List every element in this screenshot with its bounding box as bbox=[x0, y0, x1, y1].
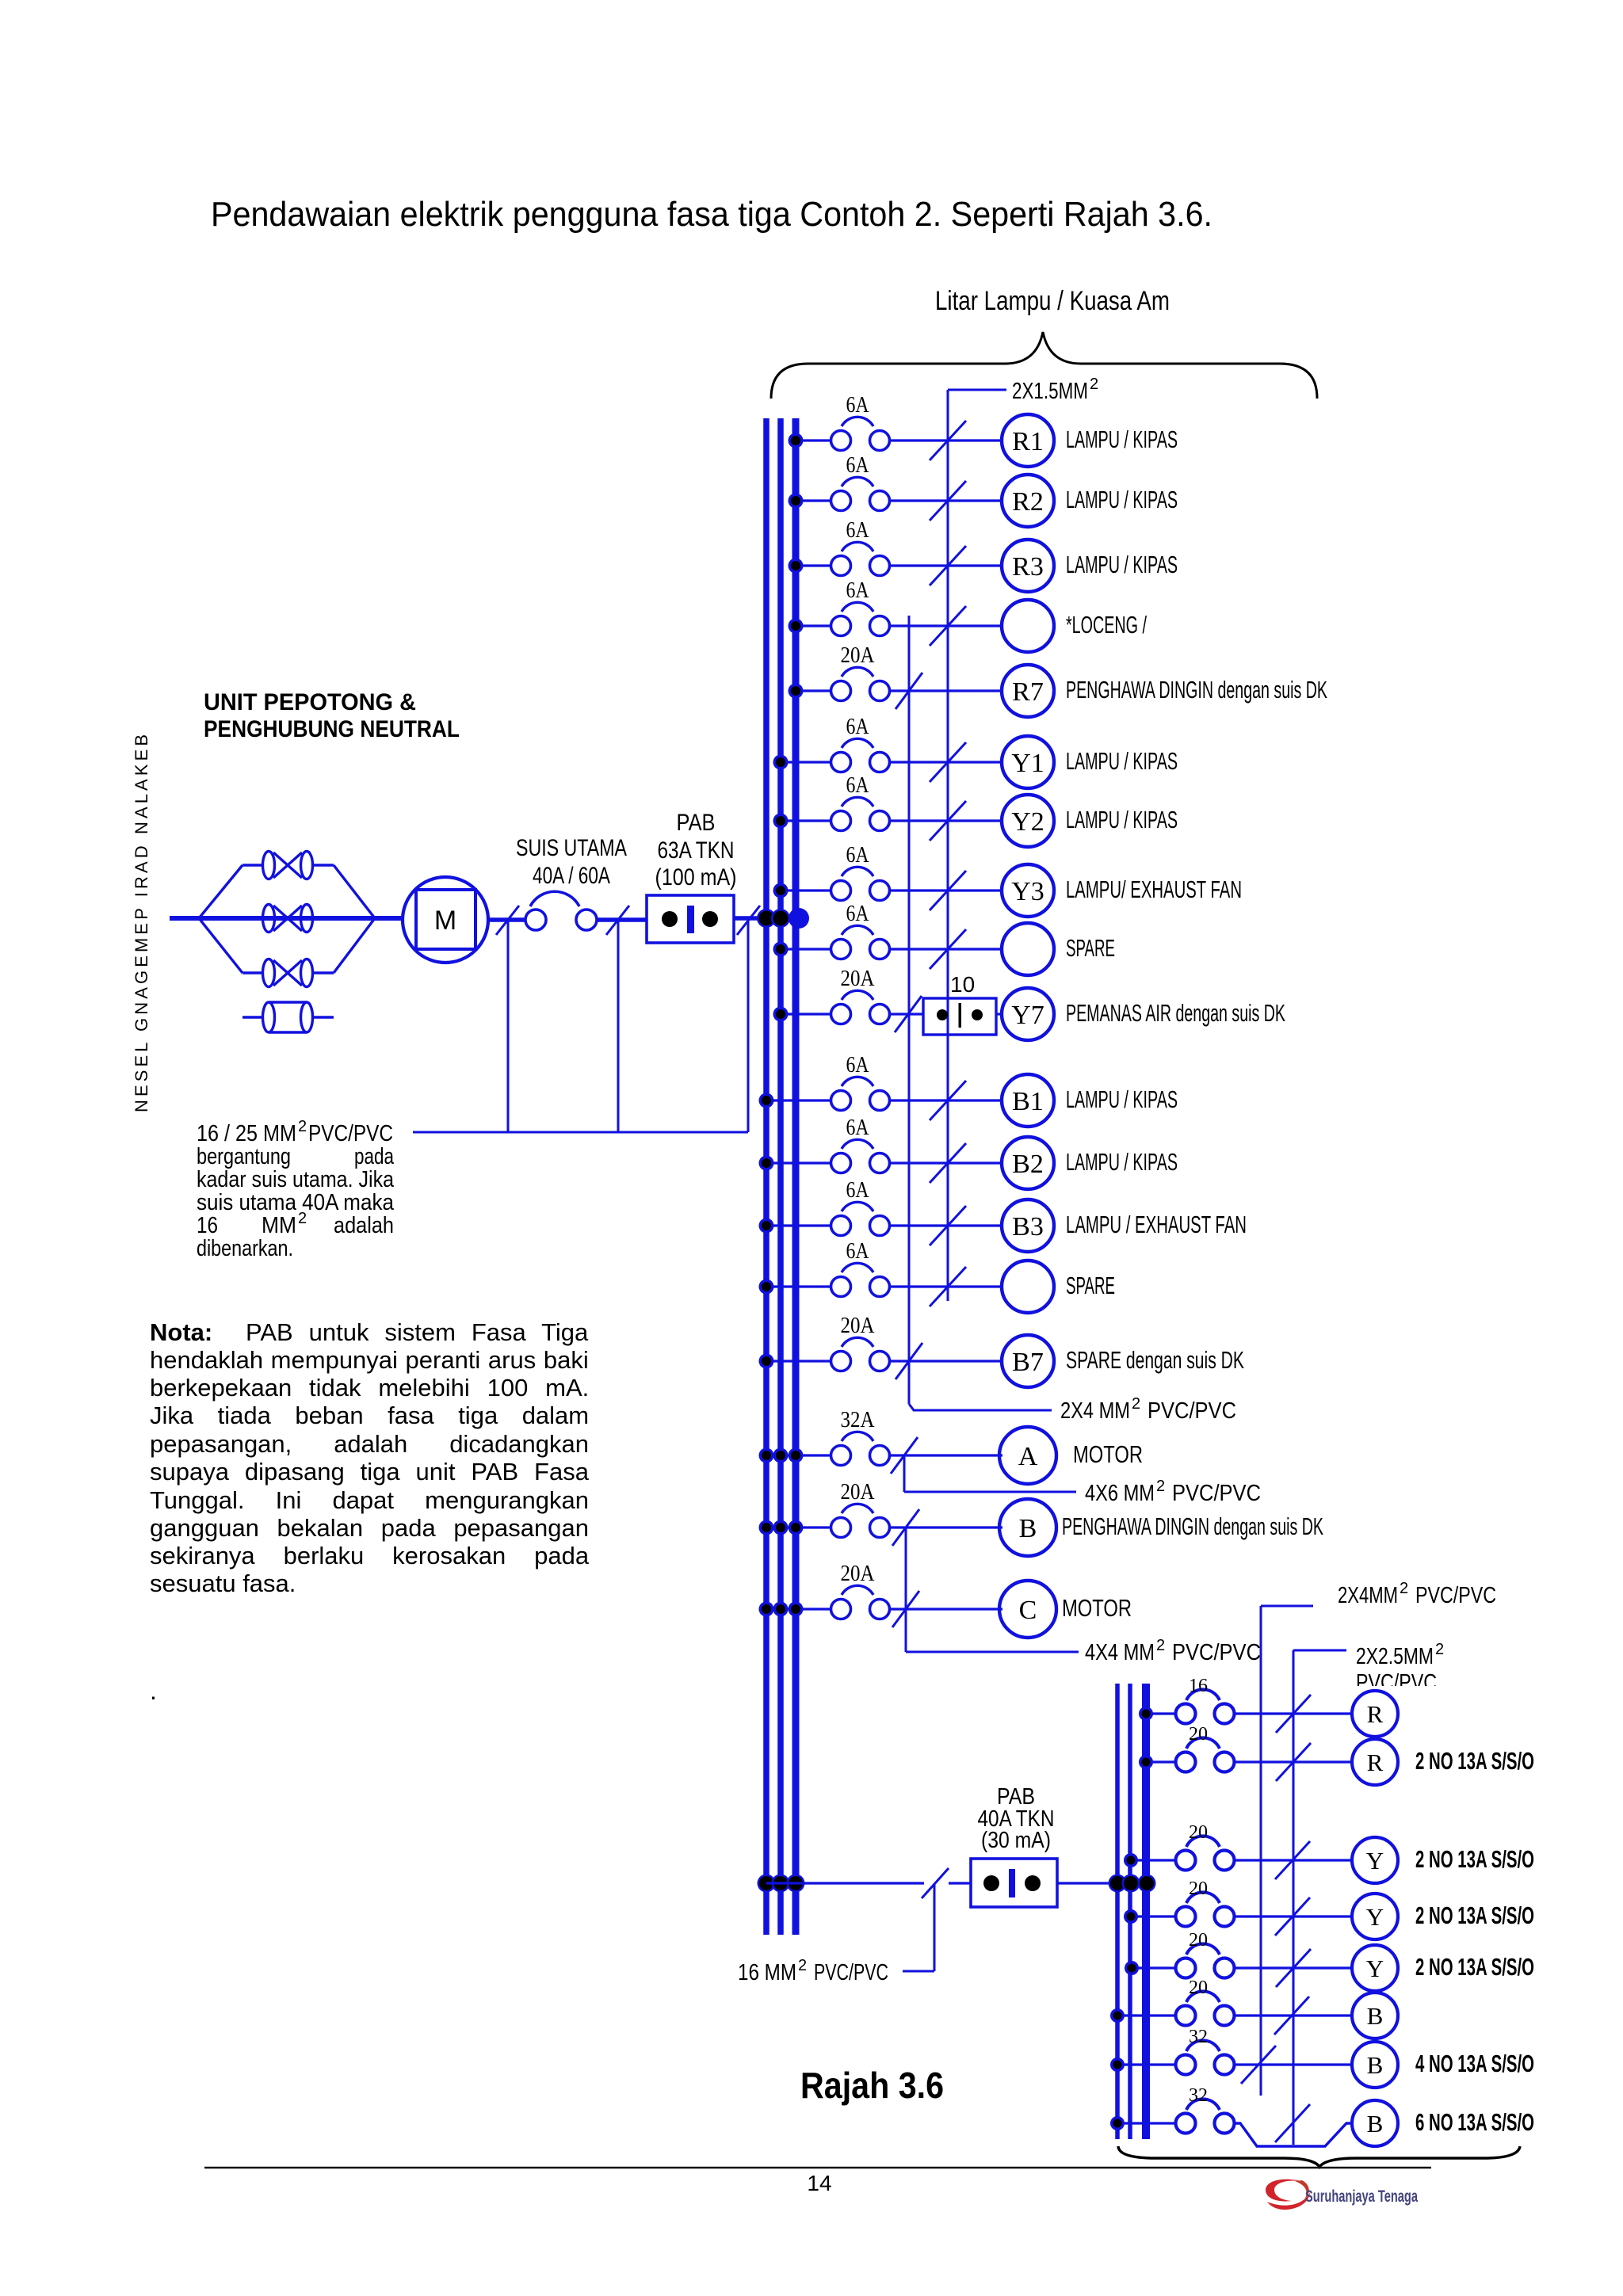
outlet circle Y3 bbox=[1002, 864, 1054, 917]
tail line PAB-side down to cable note bbox=[747, 918, 750, 1132]
PAB 40A terminal dot right bbox=[1025, 1875, 1041, 1891]
svg-text:32A: 32A bbox=[841, 1408, 876, 1432]
fuse 6A arc bbox=[842, 797, 873, 807]
conductor slash bbox=[930, 546, 966, 585]
wire tap to fuse bbox=[796, 624, 831, 627]
svg-text:MOTOR: MOTOR bbox=[1073, 1440, 1143, 1468]
outlet circle R7 bbox=[1002, 665, 1054, 717]
svg-text:LAMPU / KIPAS: LAMPU / KIPAS bbox=[1066, 806, 1178, 833]
socket-circuit fuse arc bbox=[1186, 1943, 1220, 1955]
svg-text:2 NO 13A S/S/O: 2 NO 13A S/S/O bbox=[1415, 1901, 1534, 1929]
svg-text:Y: Y bbox=[1366, 1903, 1384, 1931]
conductor slash bbox=[896, 1343, 922, 1379]
socket busbar phase Y bbox=[1128, 1684, 1132, 2139]
wire with dip to outlet bbox=[1234, 2123, 1352, 2146]
wire fuse to outlet bbox=[1234, 2014, 1352, 2016]
wire fuse to outlet bbox=[890, 564, 1002, 566]
outlet circle B1 bbox=[1002, 1074, 1054, 1127]
socket outlet circle B bbox=[1352, 1993, 1398, 2039]
fuse 20A terminal circles bbox=[831, 1518, 851, 1538]
main switch SUIS UTAMA contacts bbox=[525, 910, 546, 930]
logo Suruhanjaya Tenaga swoosh bbox=[1266, 2180, 1304, 2202]
wire tap to fuse bbox=[766, 1360, 831, 1362]
socket-circuit fuse 20A terminal circles bbox=[1176, 1958, 1196, 1978]
svg-text:20A: 20A bbox=[841, 643, 876, 668]
svg-text:6A: 6A bbox=[846, 1239, 870, 1264]
svg-text:6A: 6A bbox=[846, 578, 870, 603]
svg-text:B: B bbox=[1367, 2051, 1384, 2079]
svg-text:2X1.5MM: 2X1.5MM bbox=[1012, 379, 1088, 404]
wire fuse to outlet bbox=[890, 948, 1002, 950]
socket busbar phase R bbox=[1142, 1684, 1150, 2139]
conductor slash bbox=[891, 1437, 918, 1474]
svg-text:supaya dipasang tiga unit PAB: supaya dipasang tiga unit PAB Fasa bbox=[150, 1458, 590, 1486]
svg-text:2X4 MM: 2X4 MM bbox=[1060, 1398, 1130, 1424]
wire cutout to meter bbox=[375, 916, 403, 921]
socket-circuit fuse arc bbox=[1186, 1836, 1220, 1847]
wire fuse to outlet bbox=[890, 1285, 1002, 1287]
fuse 20A terminal circles bbox=[831, 681, 851, 701]
socket-circuit fuse 32A terminal circles bbox=[1176, 2114, 1196, 2134]
tap node bbox=[773, 942, 789, 957]
wire tap to fuse bbox=[796, 439, 831, 441]
wire tap to fuse bbox=[781, 761, 831, 763]
tap node bbox=[759, 1354, 774, 1369]
svg-text:40A / 60A: 40A / 60A bbox=[533, 863, 610, 889]
socket outlet circle Y bbox=[1352, 1894, 1398, 1939]
wire tap to fuse bbox=[1131, 1915, 1177, 1917]
socket-circuit fuse arc bbox=[1186, 1991, 1220, 2002]
cutout fork right bbox=[312, 864, 334, 866]
svg-text:R3: R3 bbox=[1012, 552, 1044, 582]
svg-text:2: 2 bbox=[1156, 1478, 1165, 1495]
svg-text:B: B bbox=[1367, 2002, 1384, 2030]
wire fuse to outlet bbox=[890, 439, 1002, 441]
wire tap to fuse bbox=[766, 1099, 831, 1101]
cutout fork left bbox=[199, 865, 242, 918]
svg-text:PVC/PVC: PVC/PVC bbox=[308, 1121, 393, 1146]
conductor slash bbox=[930, 606, 966, 646]
svg-text:20A: 20A bbox=[841, 1480, 876, 1505]
svg-text:Tunggal. Ini dapat mengurangka: Tunggal. Ini dapat mengurangkan bbox=[150, 1486, 589, 1514]
conductor slash bbox=[930, 1143, 966, 1183]
wire box to outlet bbox=[996, 1013, 1002, 1015]
svg-text:6A: 6A bbox=[846, 1116, 870, 1140]
wire tap to fuse bbox=[781, 948, 831, 950]
conductor slash bbox=[1276, 1695, 1311, 1733]
tap node bbox=[1139, 1755, 1153, 1769]
wire tap to fuse bbox=[759, 1526, 831, 1528]
svg-text:UNIT PEPOTONG &: UNIT PEPOTONG & bbox=[204, 689, 416, 715]
wire tap to fuse bbox=[1117, 2063, 1177, 2065]
conductor slash on 2X4MM2 line bbox=[895, 996, 922, 1032]
outlet circle A bbox=[999, 1427, 1056, 1484]
wire fuse to outlet bbox=[890, 819, 1002, 822]
wire fuse to outlet bbox=[890, 689, 1002, 692]
clipped edge of pasted label bbox=[1347, 1686, 1450, 1702]
svg-text:LAMPU / EXHAUST FAN: LAMPU / EXHAUST FAN bbox=[1066, 1211, 1247, 1238]
socket feed node Y bbox=[1122, 1875, 1140, 1893]
outlet circle B7 bbox=[1002, 1335, 1054, 1387]
svg-text:2: 2 bbox=[1132, 1395, 1140, 1413]
busbar junction node B bbox=[757, 909, 776, 928]
fuse 6A terminal circles bbox=[831, 431, 851, 451]
conductor slash bbox=[1275, 1841, 1310, 1879]
wire meter to main switch bbox=[488, 917, 526, 922]
svg-text:*LOCENG /: *LOCENG / bbox=[1066, 611, 1147, 639]
svg-text:2: 2 bbox=[298, 1210, 307, 1227]
svg-text:pepasangan, adalah dicadangkan: pepasangan, adalah dicadangkan bbox=[150, 1430, 589, 1458]
outlet circle C bbox=[999, 1581, 1056, 1638]
tap node bbox=[1124, 1853, 1138, 1867]
svg-text:Y2: Y2 bbox=[1011, 807, 1044, 837]
fuse 20A arc bbox=[842, 1585, 873, 1595]
svg-text:2X4MM: 2X4MM bbox=[1338, 1583, 1398, 1608]
tail line meter-side down to cable note bbox=[507, 920, 510, 1132]
svg-text:20A: 20A bbox=[841, 967, 876, 991]
fuse 6A terminal circles bbox=[831, 1091, 851, 1111]
svg-text:M: M bbox=[434, 906, 456, 936]
svg-text:4 NO 13A S/S/O: 4 NO 13A S/S/O bbox=[1415, 2050, 1534, 2077]
svg-text:6 NO 13A S/S/O: 6 NO 13A S/S/O bbox=[1415, 2108, 1534, 2136]
svg-text:Y: Y bbox=[1366, 1955, 1384, 1982]
svg-text:20A: 20A bbox=[841, 1314, 876, 1338]
cutout fuse phase Y (middle bowtie) bbox=[263, 905, 275, 933]
svg-text:PVC/PVC: PVC/PVC bbox=[1172, 1481, 1261, 1506]
fuse 6A arc bbox=[842, 417, 873, 426]
wire tap to fuse bbox=[781, 1013, 831, 1015]
svg-text:PENGHUBUNG NEUTRAL: PENGHUBUNG NEUTRAL bbox=[204, 716, 460, 742]
outlet circle Y7 bbox=[1002, 988, 1054, 1040]
svg-text:SPARE: SPARE bbox=[1066, 934, 1115, 962]
fuse 6A arc bbox=[842, 477, 873, 486]
conductor slash bbox=[1276, 1949, 1311, 1987]
tap node bbox=[773, 1007, 789, 1022]
svg-text:(100 mA): (100 mA) bbox=[655, 864, 737, 891]
svg-text:6A: 6A bbox=[846, 715, 870, 739]
svg-text:SPARE dengan suis DK: SPARE dengan suis DK bbox=[1066, 1346, 1244, 1374]
socket-circuit fuse arc bbox=[1186, 1892, 1220, 1903]
PAB 40A terminal dot left bbox=[983, 1875, 999, 1891]
svg-text:R7: R7 bbox=[1012, 677, 1044, 707]
fuse 20A terminal circles bbox=[831, 1352, 851, 1371]
wire fuse to outlet bbox=[1234, 1760, 1352, 1763]
fuse 6A terminal circles bbox=[831, 1277, 851, 1297]
svg-text:Nota:: Nota: bbox=[150, 1318, 212, 1346]
fuse 6A arc bbox=[842, 1077, 873, 1086]
svg-text:2 NO 13A S/S/O: 2 NO 13A S/S/O bbox=[1415, 1953, 1534, 1981]
tap nodes three-phase bbox=[759, 1448, 774, 1463]
feed junction node Y bbox=[772, 1875, 790, 1893]
svg-text:MM: MM bbox=[262, 1213, 296, 1238]
svg-text:63A TKN: 63A TKN bbox=[658, 837, 735, 864]
svg-text:Y7: Y7 bbox=[1011, 1001, 1044, 1030]
svg-text:B7: B7 bbox=[1012, 1348, 1044, 1377]
socket-circuit fuse 16A terminal circles bbox=[1176, 1704, 1196, 1724]
tap node bbox=[789, 433, 804, 448]
wire fuse to outlet bbox=[1234, 1915, 1352, 1917]
wire PAB 40A to socket busbar bbox=[1057, 1882, 1147, 1884]
cable 2X1.5MM2 stub bbox=[948, 389, 1006, 391]
svg-text:2: 2 bbox=[1435, 1641, 1444, 1658]
fuse 6A arc bbox=[842, 738, 873, 748]
tap node bbox=[1125, 1961, 1139, 1975]
svg-text:10: 10 bbox=[950, 972, 975, 997]
svg-text:suis utama 40A maka: suis utama 40A maka bbox=[197, 1190, 395, 1215]
conductor slash bbox=[930, 1267, 966, 1306]
tap node bbox=[789, 559, 804, 574]
busbar junction node R bbox=[789, 908, 809, 929]
outlet circle B bbox=[999, 1499, 1056, 1556]
svg-text:6A: 6A bbox=[846, 1178, 870, 1203]
wire fuse to outlet bbox=[1234, 1712, 1352, 1714]
svg-text:B: B bbox=[1019, 1514, 1037, 1543]
svg-text:(30 mA): (30 mA) bbox=[981, 1828, 1051, 1853]
neutral link bbox=[242, 1016, 263, 1018]
svg-text:6A: 6A bbox=[846, 773, 870, 798]
fuse 6A arc bbox=[842, 1139, 873, 1149]
conductor slash bbox=[1276, 1743, 1311, 1781]
svg-text:sekiranya berlaku kerosakan pa: sekiranya berlaku kerosakan pada bbox=[150, 1542, 590, 1569]
socket-circuit fuse 20A terminal circles bbox=[1176, 1851, 1196, 1871]
socket feed node R bbox=[1138, 1875, 1156, 1893]
fuse 6A arc bbox=[842, 1263, 873, 1272]
conductor slash bbox=[896, 673, 922, 709]
wire tap to fuse bbox=[1146, 1712, 1177, 1714]
tap nodes three-phase bbox=[759, 1520, 774, 1535]
fuse 6A arc bbox=[842, 602, 873, 612]
tap node bbox=[773, 883, 789, 898]
wire fuse to outlet bbox=[890, 1454, 1002, 1456]
svg-text:NESEL GNAGEMEP IRAD NALAKEB: NESEL GNAGEMEP IRAD NALAKEB bbox=[132, 731, 151, 1112]
conductor slash bbox=[930, 1206, 966, 1245]
svg-text:20: 20 bbox=[1189, 1878, 1208, 1899]
wire tap to fuse bbox=[766, 1224, 831, 1226]
tap nodes three-phase bbox=[759, 1602, 774, 1617]
outlet circle R3 bbox=[1002, 540, 1054, 592]
socket-circuit fuse arc bbox=[1186, 2040, 1220, 2051]
conductor slash 16MM feed bbox=[922, 1868, 949, 1898]
socket feed node B bbox=[1109, 1875, 1127, 1893]
fuse 20A terminal circles bbox=[831, 1005, 851, 1024]
cutout fuse phase R (top bowtie) bbox=[263, 852, 275, 879]
fuse 6A terminal circles bbox=[831, 811, 851, 831]
tap node bbox=[789, 684, 804, 699]
outlet circle SPARE bbox=[1002, 1261, 1054, 1313]
svg-text:LAMPU / KIPAS: LAMPU / KIPAS bbox=[1066, 1148, 1178, 1176]
svg-text:2: 2 bbox=[1090, 376, 1098, 393]
svg-text:LAMPU / KIPAS: LAMPU / KIPAS bbox=[1066, 747, 1178, 775]
wire fuse to outlet bbox=[1234, 2063, 1352, 2065]
socket-circuit fuse arc bbox=[1186, 1737, 1220, 1749]
cable 2X2.5MM2 vertical (socket section) bbox=[1293, 1650, 1295, 2145]
wire fuse to outlet bbox=[890, 761, 1002, 763]
cable 2X4MM2 vertical (socket section) bbox=[1260, 1606, 1262, 2096]
svg-text:A: A bbox=[1018, 1442, 1038, 1471]
outlet circle B2 bbox=[1002, 1137, 1054, 1189]
wire switch to PAB bbox=[597, 917, 647, 922]
wire tap to fuse bbox=[796, 689, 831, 692]
svg-text:20A: 20A bbox=[841, 1562, 876, 1586]
wire incoming supply bbox=[170, 916, 202, 921]
meter M circle bbox=[403, 877, 488, 963]
main switch arc bbox=[530, 891, 579, 906]
svg-text:Y: Y bbox=[1366, 1847, 1384, 1875]
cable note connector line bbox=[413, 1131, 748, 1134]
wire tap to fuse bbox=[1146, 1760, 1177, 1763]
fuse 20A arc bbox=[842, 990, 873, 1000]
wire fuse to outlet bbox=[890, 889, 1002, 891]
svg-text:16: 16 bbox=[1189, 1676, 1208, 1696]
conductor slash bbox=[1274, 1997, 1309, 2035]
PAB 63A toggle bar bbox=[687, 906, 694, 933]
svg-text:2: 2 bbox=[1400, 1580, 1408, 1597]
feed junction node B bbox=[758, 1875, 776, 1893]
tap node bbox=[1110, 2008, 1125, 2023]
svg-text:6A: 6A bbox=[846, 518, 870, 543]
socket-circuit fuse 32A terminal circles bbox=[1176, 2055, 1196, 2075]
fuse 32A arc bbox=[842, 1432, 873, 1441]
svg-text:PAB untuk sistem Fasa Tiga: PAB untuk sistem Fasa Tiga bbox=[246, 1318, 589, 1346]
svg-text:Y3: Y3 bbox=[1011, 877, 1044, 906]
wire tap to fuse bbox=[1132, 1966, 1177, 1969]
svg-text:PENGHAWA DINGIN dengan suis DK: PENGHAWA DINGIN dengan suis DK bbox=[1066, 676, 1327, 704]
svg-text:LAMPU/ EXHAUST FAN: LAMPU/ EXHAUST FAN bbox=[1066, 875, 1242, 903]
socket busbar phase B bbox=[1115, 1684, 1120, 2139]
svg-text:gangguan bekalan pada pepasang: gangguan bekalan pada pepasangan bbox=[150, 1514, 589, 1542]
busbar junction node Y bbox=[771, 909, 790, 928]
svg-text:Y1: Y1 bbox=[1011, 749, 1044, 778]
svg-text:Jika tiada beban fasa tiga dal: Jika tiada beban fasa tiga dalam bbox=[150, 1402, 589, 1429]
wire tap to fuse bbox=[1117, 2014, 1177, 2016]
svg-text:4X4 MM: 4X4 MM bbox=[1085, 1640, 1155, 1665]
svg-text:2: 2 bbox=[798, 1957, 807, 1974]
conductor slash bbox=[930, 481, 966, 521]
wire tap to fuse bbox=[1131, 1859, 1177, 1861]
svg-text:2X2.5MM: 2X2.5MM bbox=[1356, 1644, 1434, 1669]
svg-text:6A: 6A bbox=[846, 1053, 870, 1077]
conductor slash bbox=[930, 929, 966, 969]
svg-text:R2: R2 bbox=[1012, 487, 1044, 517]
svg-text:20: 20 bbox=[1189, 1822, 1208, 1843]
conductor slash bbox=[930, 871, 966, 910]
wire tap to fuse bbox=[1117, 2122, 1177, 2124]
fuse 6A terminal circles bbox=[831, 616, 851, 636]
wire fuse to outlet bbox=[890, 1099, 1002, 1101]
socket-circuit fuse 20A terminal circles bbox=[1176, 1907, 1196, 1927]
svg-text:SPARE: SPARE bbox=[1066, 1272, 1115, 1299]
conductor slash bbox=[892, 1509, 919, 1546]
svg-text:PVC/PVC: PVC/PVC bbox=[1172, 1640, 1261, 1665]
cable 16 MM2 tail bbox=[934, 1883, 936, 1971]
svg-text:PENGHAWA DINGIN dengan suis DK: PENGHAWA DINGIN dengan suis DK bbox=[1062, 1512, 1323, 1540]
svg-text:LAMPU / KIPAS: LAMPU / KIPAS bbox=[1066, 486, 1178, 513]
svg-text:2: 2 bbox=[298, 1118, 307, 1135]
socket-circuit fuse arc bbox=[1186, 1689, 1220, 1700]
conductor slash bbox=[930, 742, 966, 782]
svg-text:MOTOR: MOTOR bbox=[1062, 1594, 1132, 1622]
socket outlet circle R bbox=[1352, 1691, 1398, 1737]
tap node bbox=[773, 814, 789, 829]
svg-text:berkepekaan tidak melebihi 100: berkepekaan tidak melebihi 100 mA. bbox=[150, 1374, 589, 1402]
fuse 20A arc bbox=[842, 667, 873, 677]
socket-circuit fuse 20A terminal circles bbox=[1176, 2006, 1196, 2026]
svg-text:20: 20 bbox=[1189, 1930, 1208, 1951]
tap node bbox=[1110, 2116, 1125, 2130]
outlet circle Y2 bbox=[1002, 795, 1054, 847]
wire PAB to busbar bbox=[734, 916, 799, 921]
tap node bbox=[789, 494, 804, 509]
svg-text:R: R bbox=[1367, 1700, 1384, 1728]
fuse 6A arc bbox=[842, 867, 873, 876]
svg-text:kadar suis utama. Jika: kadar suis utama. Jika bbox=[197, 1167, 395, 1192]
svg-text:16 MM: 16 MM bbox=[738, 1960, 796, 1985]
tap node bbox=[759, 1219, 774, 1234]
wire slash to PAB 40A bbox=[949, 1882, 971, 1884]
fuse 20A terminal circles bbox=[831, 1600, 851, 1619]
outlet circle Y1 bbox=[1002, 736, 1054, 788]
svg-text:adalah: adalah bbox=[334, 1213, 394, 1238]
fuse 6A terminal circles bbox=[831, 491, 851, 511]
svg-text:4X6 MM: 4X6 MM bbox=[1085, 1481, 1155, 1506]
conductor slash bbox=[1275, 1897, 1310, 1936]
PAB 40A TKN box bbox=[971, 1859, 1057, 1907]
fuse 6A terminal circles bbox=[831, 1216, 851, 1236]
wire fuse to outlet bbox=[890, 1161, 1002, 1164]
busbar phase Y (middle vertical) bbox=[777, 418, 784, 1935]
svg-text:6A: 6A bbox=[846, 843, 870, 868]
wire fuse to outlet bbox=[890, 624, 1002, 627]
outlet circle B3 bbox=[1002, 1199, 1054, 1252]
tap node bbox=[773, 755, 789, 770]
wire tap to fuse bbox=[759, 1608, 831, 1610]
svg-text:32: 32 bbox=[1189, 2027, 1208, 2047]
svg-text:6A: 6A bbox=[846, 902, 870, 926]
PAB 10 box (water heater DK switch) bbox=[923, 998, 996, 1035]
conductor slash bbox=[1241, 2046, 1276, 2084]
outlet circle *LOCENG / bbox=[1002, 600, 1054, 652]
wire tap to fuse bbox=[766, 1285, 831, 1287]
feed junction node R bbox=[787, 1875, 805, 1893]
tap node bbox=[1110, 2058, 1125, 2072]
socket-circuit fuse arc bbox=[1186, 2099, 1220, 2110]
svg-text:6A: 6A bbox=[846, 393, 870, 418]
meter M square bbox=[416, 890, 475, 949]
tap node bbox=[789, 619, 804, 634]
wire fuse to outlet bbox=[890, 1526, 1002, 1528]
fuse 6A arc bbox=[842, 1202, 873, 1211]
wire fuse to outlet bbox=[890, 1608, 1002, 1610]
svg-text:PAB: PAB bbox=[677, 810, 716, 836]
footer rule bbox=[204, 2167, 1431, 2169]
fuse 6A terminal circles bbox=[831, 1154, 851, 1173]
tap node bbox=[759, 1280, 774, 1295]
outlet circle R1 bbox=[1002, 414, 1054, 467]
svg-text:16: 16 bbox=[197, 1213, 218, 1238]
cable 2X4 MM2 corner to label bbox=[909, 1404, 1052, 1410]
svg-text:R: R bbox=[1367, 1749, 1384, 1776]
svg-text:2: 2 bbox=[1156, 1637, 1165, 1654]
wire fuse to outlet bbox=[890, 1360, 1002, 1362]
wire tap to fuse bbox=[796, 499, 831, 502]
svg-text:14: 14 bbox=[807, 2171, 831, 2195]
svg-text:R1: R1 bbox=[1012, 427, 1044, 456]
wire tap to fuse bbox=[781, 889, 831, 891]
outlet circle SPARE bbox=[1002, 923, 1054, 975]
conductor slash after switch bbox=[606, 906, 629, 935]
brace over Litar Lampu / Kuasa Am bbox=[771, 332, 1317, 399]
fuse 6A terminal circles bbox=[831, 753, 851, 772]
